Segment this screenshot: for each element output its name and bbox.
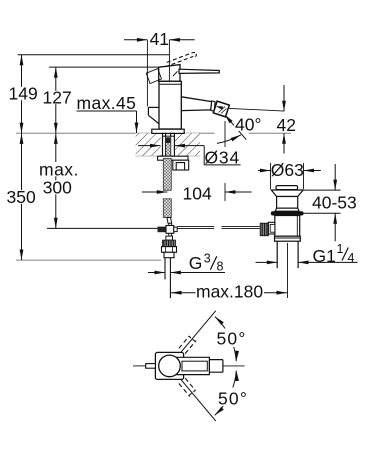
svg-text:42: 42	[277, 115, 296, 135]
svg-text:max.180: max.180	[196, 282, 263, 302]
svg-text:127: 127	[43, 88, 72, 108]
svg-text:50°: 50°	[218, 389, 248, 409]
svg-text:104: 104	[183, 184, 212, 204]
svg-text:3: 3	[204, 251, 211, 265]
svg-text:4: 4	[348, 251, 355, 265]
svg-text:40°: 40°	[235, 114, 261, 134]
svg-text:350: 350	[7, 187, 36, 207]
svg-text:G1: G1	[313, 246, 336, 266]
svg-text:300: 300	[43, 178, 72, 198]
svg-text:40-53: 40-53	[312, 193, 357, 213]
svg-text:Ø63: Ø63	[271, 160, 304, 180]
svg-text:50°: 50°	[217, 329, 247, 349]
svg-text:149: 149	[9, 84, 38, 104]
svg-text:8: 8	[217, 259, 224, 273]
svg-text:1: 1	[337, 242, 344, 256]
svg-text:max.45: max.45	[77, 93, 137, 113]
svg-text:41: 41	[150, 29, 169, 49]
svg-text:max.: max.	[39, 160, 79, 180]
svg-text:Ø34: Ø34	[205, 148, 240, 168]
svg-text:G: G	[189, 253, 203, 273]
